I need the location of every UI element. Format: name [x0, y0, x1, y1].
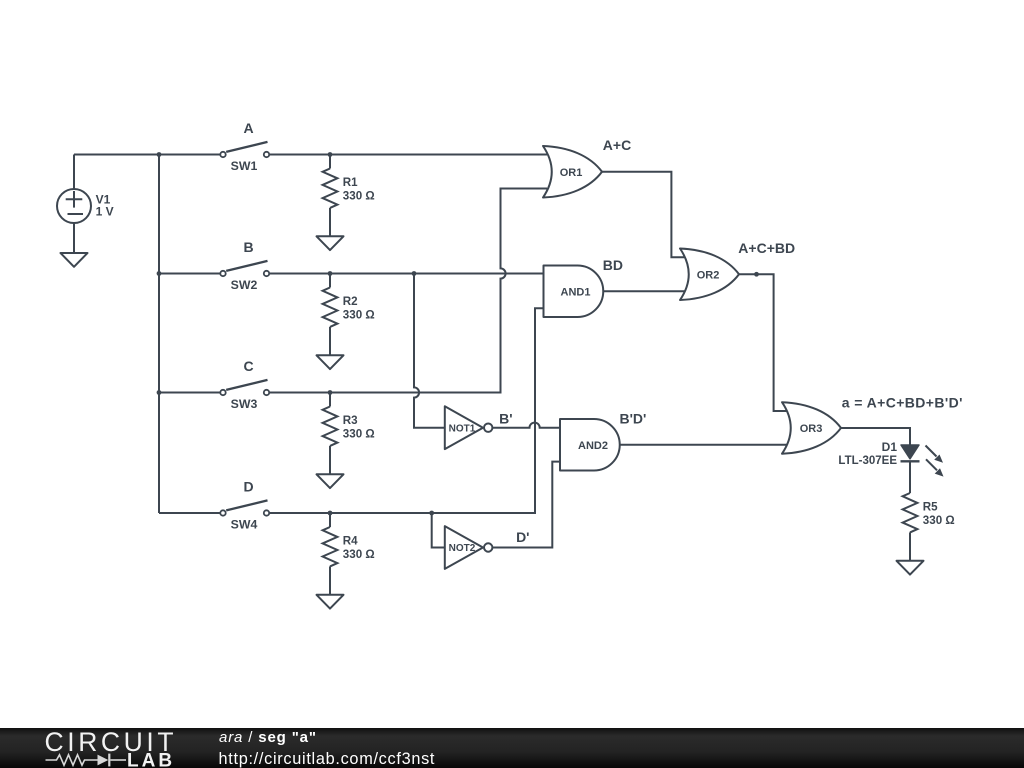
wire OR2 output to OR3 top input: [739, 274, 791, 411]
svg-text:D: D: [243, 479, 253, 495]
wire A row left (V1 to SW1): [74, 154, 220, 156]
wire LED to R5: [909, 461, 911, 493]
resistor R3 top lead: [329, 393, 331, 407]
svg-text:330 Ω: 330 Ω: [343, 189, 375, 202]
wire V1 bottom lead: [73, 223, 75, 253]
svg-text:R4: R4: [343, 535, 358, 548]
svg-text:330 Ω: 330 Ω: [343, 548, 375, 561]
resistor R4 body: [323, 527, 338, 566]
LED D1 light arrow 2: [926, 459, 937, 470]
junction R2 tap: [328, 271, 333, 276]
svg-text:C: C: [243, 358, 253, 374]
svg-text:OR2: OR2: [697, 269, 720, 281]
wire D-prime (NOT2 out, up to AND2 bottom input): [492, 462, 561, 548]
LED D1 cathode bar: [901, 460, 920, 462]
or-gate OR2: [680, 249, 739, 301]
wire B-prime (NOT1 out to AND2) with hop over vertical: [492, 423, 561, 428]
resistor R4 top lead: [329, 513, 331, 527]
svg-text:R2: R2: [343, 295, 358, 308]
switch SW2 lever: [226, 261, 267, 271]
wire vertical bus: [158, 155, 160, 514]
svg-text:NOT2: NOT2: [449, 543, 476, 554]
svg-text:330 Ω: 330 Ω: [343, 427, 375, 440]
wire B row right (SW2 to AND1): [270, 273, 546, 275]
resistor R2 body: [323, 288, 338, 327]
svg-text:1 V: 1 V: [96, 205, 114, 219]
not-gate NOT1: [445, 406, 483, 449]
svg-text:R5: R5: [923, 500, 938, 513]
svg-text:B'D': B'D': [619, 411, 646, 427]
junction R1 tap: [328, 152, 333, 157]
switch SW4 contacts: [220, 510, 225, 515]
and-gate AND2: [560, 419, 620, 471]
or-gate OR3: [782, 402, 841, 454]
svg-text:D1: D1: [882, 440, 898, 454]
switch SW1 contacts: [220, 152, 225, 157]
ground below R5: [897, 561, 924, 575]
and-gate AND1: [544, 266, 604, 318]
svg-text:a = A+C+BD+B'D': a = A+C+BD+B'D': [842, 395, 963, 411]
junction bus-C: [157, 390, 162, 395]
svg-text:BD: BD: [603, 257, 623, 273]
svg-text:NOT1: NOT1: [449, 423, 476, 434]
LED D1 light arrow 1: [926, 446, 937, 457]
wire C row right with hop over B row, up to OR1 bottom input: [270, 189, 548, 393]
junction NOT1 tap on B row: [412, 271, 417, 276]
CircuitLab logo squiggle resistor: [46, 755, 98, 765]
CircuitLab logo squiggle diode: [98, 755, 109, 766]
wire D row right, corner up to AND1 bottom input: [270, 308, 546, 513]
svg-text:LAB: LAB: [127, 750, 175, 768]
resistor R1 top lead: [329, 155, 331, 169]
svg-text:A: A: [243, 120, 253, 136]
resistor R3 bottom lead: [329, 446, 331, 474]
wire D row left (bus corner to SW4): [159, 512, 220, 514]
resistor R5 body: [903, 493, 918, 532]
wire NOT1 input feed from B row with hop over C row: [414, 274, 446, 428]
junction R3 tap: [328, 390, 333, 395]
wire A row right (SW1 to OR1): [270, 154, 548, 156]
V1 plus sign: [66, 198, 83, 200]
wire NOT2 input feed from D row: [432, 513, 446, 548]
resistor R3 body: [323, 407, 338, 446]
svg-text:A+C: A+C: [603, 137, 631, 153]
svg-text:R3: R3: [343, 414, 358, 427]
wire OR1 output to OR2 top input: [601, 172, 688, 258]
resistor R2 bottom lead: [329, 327, 331, 355]
ground below R2: [317, 355, 344, 369]
svg-text:SW2: SW2: [231, 278, 258, 292]
junction bus-A: [157, 152, 162, 157]
switch SW2 contacts: [220, 271, 225, 276]
svg-text:SW3: SW3: [231, 397, 258, 411]
svg-text:D': D': [516, 529, 529, 545]
wire C row left (bus to SW3): [159, 392, 220, 394]
not-gate NOT2: [445, 526, 483, 569]
V1 minus sign: [68, 213, 84, 215]
resistor R1 bottom lead: [329, 208, 331, 236]
svg-text:B': B': [499, 410, 512, 426]
svg-text:330 Ω: 330 Ω: [343, 308, 375, 321]
svg-text:http://circuitlab.com/ccf3nst: http://circuitlab.com/ccf3nst: [219, 750, 436, 768]
svg-text:SW1: SW1: [231, 159, 258, 173]
switch SW3 contacts: [220, 390, 225, 395]
ground below R3: [317, 474, 344, 488]
ground below R4: [317, 595, 344, 609]
svg-text:A+C+BD: A+C+BD: [738, 240, 795, 256]
junction NOT2 tap on D row: [429, 511, 434, 516]
wire V1 top lead: [73, 155, 75, 190]
resistor R2 top lead: [329, 274, 331, 288]
svg-text:OR1: OR1: [560, 167, 583, 179]
junction OR2 output node: [754, 272, 759, 277]
svg-text:SW4: SW4: [231, 518, 258, 532]
svg-text:R1: R1: [343, 176, 358, 189]
switch SW4 lever: [226, 500, 267, 510]
svg-text:LTL-307EE: LTL-307EE: [838, 455, 897, 467]
resistor R4 bottom lead: [329, 566, 331, 594]
wire B row left (bus to SW2): [159, 273, 220, 275]
wire R5 to ground: [909, 532, 911, 560]
switch SW3 lever: [226, 380, 267, 390]
svg-text:B: B: [243, 239, 253, 255]
wire AND2 output to OR3 bottom input: [619, 444, 790, 446]
svg-text:OR3: OR3: [800, 423, 823, 435]
svg-text:AND2: AND2: [578, 440, 608, 452]
svg-text:AND1: AND1: [561, 286, 591, 298]
footer bar: [0, 728, 1024, 768]
resistor R1 body: [323, 169, 338, 208]
voltage source V1 circle: [57, 189, 91, 223]
junction R4 tap: [328, 511, 333, 516]
switch SW1 lever: [226, 142, 267, 152]
ground below R1: [317, 236, 344, 250]
svg-text:ara / seg "a": ara / seg "a": [219, 729, 317, 746]
svg-text:330 Ω: 330 Ω: [923, 514, 955, 527]
or-gate OR1: [543, 146, 602, 198]
wire AND1 output to OR2 bottom input: [603, 290, 689, 292]
ground below V1: [61, 253, 88, 267]
LED D1 triangle: [901, 445, 919, 459]
wire OR3 output to LED: [841, 428, 911, 446]
junction bus-B: [157, 271, 162, 276]
